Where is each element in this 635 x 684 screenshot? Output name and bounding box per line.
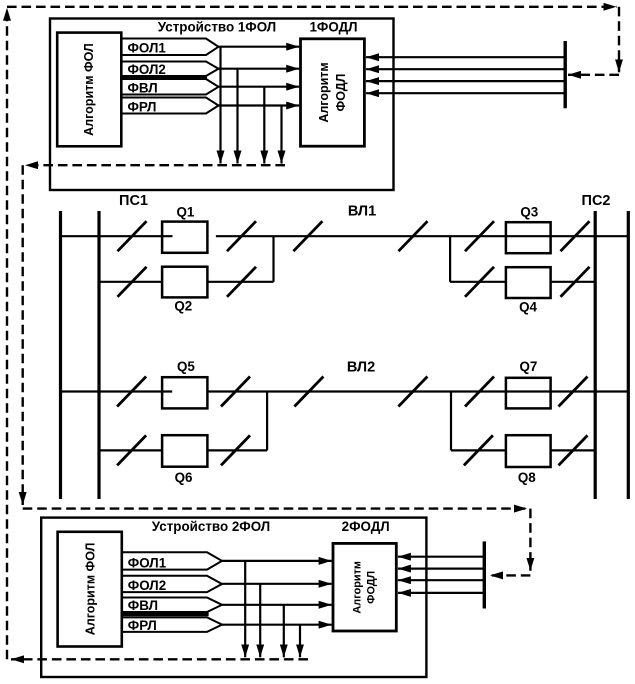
svg-text:1ФОДЛ: 1ФОДЛ (309, 20, 357, 35)
wire: dashed channel B arrow into receive bar 2 (490, 574, 530, 576)
wire: dashed channel A right vertical segment with down arrow (618, 7, 620, 73)
wire: dashed channel A arrow into receive bar 1 (568, 74, 619, 76)
disconnector slash right of Q8 (559, 435, 588, 465)
wire ФОЛ1 drop to channel B (219, 47, 221, 164)
disconnector slash left of Q8 (464, 435, 493, 465)
busbar ПС1 left (59, 211, 62, 499)
breaker Q5 (162, 359, 207, 409)
junction vertical ВЛ1 left (Q1-Q2 tie) (272, 236, 274, 282)
wire ФОЛ1 output to 2ФОДЛ (222, 560, 332, 562)
wire ФРЛ drop to channel B (280, 106, 282, 164)
wire ФОЛ2 output to 2ФОДЛ (222, 583, 332, 585)
wire row Q4 segment junction to breaker (450, 281, 506, 283)
disconnector slash ВЛ1 left (293, 221, 322, 251)
svg-text:Алгоритм: Алгоритм (352, 561, 364, 614)
wire ФРЛ drop to channel A (299, 625, 301, 658)
junction vertical ВЛ2 right (Q7-Q8 tie) (450, 392, 452, 451)
disconnector slash right of Q6 (221, 435, 250, 465)
disconnector slash left of Q3 (465, 221, 494, 251)
flag ФВЛ (device 2) (122, 598, 222, 614)
busbar ПС2 right (627, 211, 630, 499)
wire ФРЛ output to 2ФОДЛ (222, 624, 332, 626)
svg-text:ФОЛ1: ФОЛ1 (128, 555, 167, 570)
wire row Q8 segment breaker to bus (551, 449, 596, 451)
disconnector slash left of Q1 (118, 221, 147, 251)
disconnector slash ВЛ2 left (294, 377, 323, 407)
wire: dashed channel B left vertical segment with down arrow (22, 165, 24, 505)
wire row Q1/ВЛ1 left segment (into Q1 stub) (61, 235, 173, 237)
svg-text:Q2: Q2 (174, 299, 192, 314)
svg-text:ВЛ1: ВЛ1 (348, 204, 376, 220)
thick divider band between ФОЛ2 and ФВЛ (device 1) (121, 75, 207, 80)
wire ФРЛ output to 1ФОДЛ (219, 104, 300, 106)
svg-text:ФРЛ: ФРЛ (128, 100, 157, 115)
wire: dashed channel B right vertical segment with down arrow (529, 509, 531, 571)
wire ФВЛ output to 1ФОДЛ (219, 86, 300, 88)
busbar ПС1 right (97, 211, 100, 499)
receive bar 2 (channel terminal near 2ФОДЛ) (483, 541, 486, 608)
wire ФВЛ drop to channel B (263, 87, 265, 164)
disconnector slash right of Q4 (561, 267, 590, 297)
svg-text:ФОЛ2: ФОЛ2 (128, 62, 166, 77)
block Алгоритм ФОЛ (device 1) (57, 33, 121, 147)
svg-text:Алгоритм ФОЛ: Алгоритм ФОЛ (84, 543, 98, 636)
wire receive line 1 into 2ФОДЛ (398, 556, 484, 558)
flag ФРЛ (device 2) (122, 617, 222, 632)
junction vertical ВЛ2 left (Q5-Q6 tie) (266, 392, 268, 451)
flag ФОЛ2 (device 1) (121, 62, 219, 78)
disconnector slash left of Q5 (117, 377, 146, 407)
wire row Q5/ВЛ2 left segment (into Q5 stub) (61, 390, 173, 392)
svg-text:Устройство 1ФОЛ: Устройство 1ФОЛ (158, 20, 276, 35)
block Алгоритм ФОДЛ (1ФОДЛ) (301, 39, 365, 146)
disconnector slash left of Q7 (465, 377, 494, 407)
disconnector slash ВЛ2 right (398, 377, 427, 407)
wire ФОЛ2 output to 1ФОДЛ (219, 68, 300, 70)
breaker Q4 (506, 267, 551, 314)
breaker Q3 (506, 204, 551, 253)
wire receive line 1 into 1ФОДЛ (366, 56, 565, 58)
svg-text:Q5: Q5 (177, 359, 195, 374)
wire: dashed channel B collector under device 1 with left arrow (25, 164, 285, 166)
wire row Q2 segment bus to breaker (99, 281, 162, 283)
wire ФВЛ drop to channel A (283, 605, 285, 658)
svg-text:Q8: Q8 (518, 470, 536, 485)
svg-text:ФВЛ: ФВЛ (128, 81, 158, 96)
svg-text:ФОЛ1: ФОЛ1 (128, 41, 167, 56)
disconnector slash right of Q7 (559, 377, 588, 407)
flag ФОЛ1 (device 1) (121, 39, 219, 56)
flag ФОЛ2 (device 2) (122, 576, 222, 593)
wire ФВЛ output to 2ФОДЛ (222, 604, 332, 606)
breaker Q6 (162, 435, 207, 485)
wire receive line 4 into 1ФОДЛ (366, 92, 565, 94)
svg-text:ФВЛ: ФВЛ (128, 598, 158, 613)
svg-text:Q3: Q3 (520, 204, 538, 219)
svg-text:ФОДЛ: ФОДЛ (334, 74, 348, 112)
wire ФОЛ1 output to 1ФОДЛ (219, 46, 300, 48)
breaker Q2 (162, 267, 207, 314)
wire receive line 2 into 2ФОДЛ (398, 567, 484, 569)
disconnector slash right of Q1 (227, 221, 256, 251)
wire row Q6 segment bus to breaker (99, 449, 162, 451)
svg-text:Алгоритм ФОЛ: Алгоритм ФОЛ (82, 43, 96, 136)
svg-text:Q4: Q4 (519, 300, 537, 315)
wire receive line 4 into 2ФОДЛ (398, 592, 484, 594)
disconnector slash left of Q4 (465, 267, 494, 297)
svg-text:Алгоритм: Алгоритм (317, 62, 331, 122)
block Алгоритм ФОЛ (device 2) (58, 532, 122, 647)
wire: dashed channel A top segment with right arrow (7, 6, 617, 8)
breaker Q7 (506, 359, 551, 408)
disconnector slash left of Q6 (117, 435, 146, 465)
svg-text:Устройство 2ФОЛ: Устройство 2ФОЛ (152, 519, 270, 534)
device box Устройство 2ФОЛ (41, 518, 426, 677)
disconnector slash ВЛ1 right (399, 221, 428, 251)
busbar ПС2 left (594, 211, 597, 499)
flag ФОЛ1 (device 2) (122, 552, 222, 570)
thick divider band between ФВЛ and ФРЛ (device 2) (122, 611, 209, 616)
wire: dashed channel A bottom segment with left arrow (11, 658, 308, 660)
wire ФОЛ1 drop to channel A (244, 561, 246, 657)
wire row ВЛ1 main segment from Q1 to ПС2 (216, 235, 628, 237)
breaker Q1 (162, 204, 207, 253)
svg-text:ВЛ2: ВЛ2 (347, 359, 375, 375)
disconnector slash right of Q3 (561, 221, 590, 251)
wire: dashed channel A left vertical segment with up arrow (6, 8, 8, 660)
disconnector slash left of Q2 (118, 267, 147, 297)
disconnector slash right of Q2 (227, 267, 256, 297)
wire receive line 3 into 2ФОДЛ (398, 579, 484, 581)
flag ФВЛ (device 1) (121, 79, 219, 96)
svg-text:ПС2: ПС2 (582, 193, 611, 209)
junction vertical ВЛ1 right (Q3-Q4 tie) (449, 236, 451, 282)
wire ФОЛ2 drop to channel A (259, 584, 261, 658)
wire receive line 3 into 1ФОДЛ (366, 80, 565, 82)
wire receive line 2 into 1ФОДЛ (366, 68, 565, 70)
wire: dashed channel B middle horizontal segment with right arrow (23, 507, 527, 509)
svg-text:ПС1: ПС1 (119, 193, 148, 209)
svg-text:ФРЛ: ФРЛ (128, 618, 157, 633)
svg-text:Q6: Q6 (175, 470, 193, 485)
flag ФРЛ (device 1) (121, 98, 219, 115)
device box Устройство 1ФОЛ (50, 19, 394, 191)
wire row Q4 segment breaker to bus (551, 281, 596, 283)
svg-text:Q7: Q7 (519, 359, 537, 374)
wire row Q6 segment breaker to junction (208, 449, 268, 451)
receive bar 1 (channel terminal near 1ФОДЛ) (564, 41, 567, 108)
wire ФОЛ2 drop to channel B (236, 69, 238, 164)
wire row Q8 segment junction to breaker (451, 449, 506, 451)
svg-text:Q1: Q1 (176, 204, 194, 219)
wire row ВЛ2 main segment from Q5 to ПС2 (208, 390, 628, 392)
disconnector slash right of Q5 (221, 377, 250, 407)
svg-text:2ФОДЛ: 2ФОДЛ (342, 519, 390, 534)
breaker Q8 (506, 435, 551, 485)
svg-text:ФОДЛ: ФОДЛ (366, 571, 378, 604)
block Алгоритм ФОДЛ (2ФОДЛ) (333, 543, 396, 631)
wire row Q2 segment breaker to junction (207, 281, 273, 283)
svg-text:ФОЛ2: ФОЛ2 (128, 578, 166, 593)
